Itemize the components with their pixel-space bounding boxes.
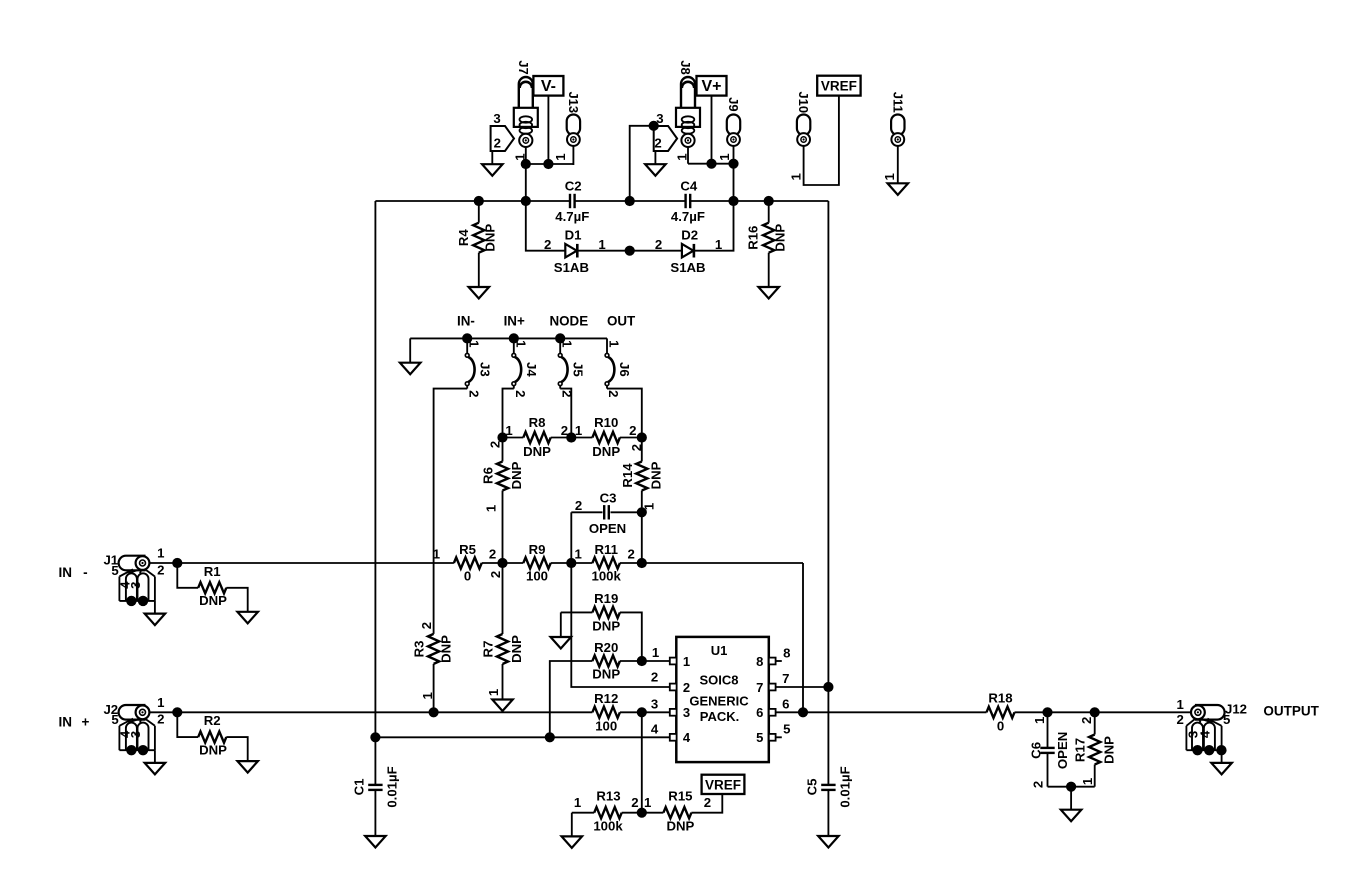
svg-text:DNP: DNP xyxy=(592,444,620,459)
svg-text:C2: C2 xyxy=(565,179,582,194)
svg-text:6: 6 xyxy=(756,705,763,720)
svg-text:100k: 100k xyxy=(593,819,623,834)
svg-text:8: 8 xyxy=(783,646,790,661)
resistor R8 xyxy=(523,432,550,443)
svg-text:2: 2 xyxy=(157,712,164,727)
svg-text:R17: R17 xyxy=(1073,738,1088,762)
svg-text:R13: R13 xyxy=(596,788,620,803)
svg-text:C3: C3 xyxy=(600,491,617,506)
svg-text:1: 1 xyxy=(433,547,440,562)
ground R1 xyxy=(237,612,258,624)
resistor R19 xyxy=(561,611,593,613)
svg-text:S1AB: S1AB xyxy=(554,260,589,275)
node C6 R17 ground junction xyxy=(1066,782,1076,792)
ground R4 xyxy=(469,287,490,299)
svg-text:1: 1 xyxy=(483,505,498,512)
connector J12 xyxy=(1195,705,1225,720)
node guard IN- xyxy=(462,333,472,343)
node rail R4 xyxy=(474,196,484,206)
resistor R5 xyxy=(454,557,482,568)
wire IN- line xyxy=(149,562,454,564)
svg-text:1: 1 xyxy=(486,689,501,696)
wire V+ box stem xyxy=(711,96,713,164)
test point J11 xyxy=(891,115,904,136)
wire R8 R10 row xyxy=(503,437,524,439)
wire J4 pin2 to R8 xyxy=(503,389,514,438)
pin 8 stub U1 xyxy=(776,660,782,662)
ground C5 xyxy=(818,836,839,848)
node guard IN+ xyxy=(509,333,519,343)
node trim junction pin1 xyxy=(637,656,647,666)
svg-text:2: 2 xyxy=(629,444,644,451)
svg-text:100: 100 xyxy=(526,569,548,584)
svg-text:DNP: DNP xyxy=(523,444,551,459)
banana jack J7 xyxy=(519,77,533,108)
svg-text:1: 1 xyxy=(553,153,568,160)
wire power rail xyxy=(375,200,570,202)
svg-text:100: 100 xyxy=(595,719,617,734)
wire pin1 xyxy=(642,660,670,662)
svg-text:1: 1 xyxy=(157,546,164,561)
svg-text:R5: R5 xyxy=(459,542,476,557)
svg-text:R9: R9 xyxy=(529,542,546,557)
node R11 pin2 junction xyxy=(637,558,647,568)
svg-text:J3: J3 xyxy=(477,362,492,377)
node pin7 junction xyxy=(823,682,833,692)
wire right power vertical xyxy=(827,201,829,785)
svg-text:R1: R1 xyxy=(204,564,221,579)
svg-text:+: + xyxy=(81,715,89,730)
svg-text:3: 3 xyxy=(493,111,500,126)
svg-text:OUTPUT: OUTPUT xyxy=(1263,703,1319,718)
svg-text:J10: J10 xyxy=(796,91,811,113)
node rail center xyxy=(625,196,635,206)
svg-text:J4: J4 xyxy=(524,362,539,377)
svg-text:0.01µF: 0.01µF xyxy=(384,766,399,807)
node guard NODE xyxy=(555,333,565,343)
svg-text:S1AB: S1AB xyxy=(670,260,705,275)
svg-text:DNP: DNP xyxy=(439,635,454,663)
svg-text:2: 2 xyxy=(655,237,662,252)
svg-text:OUT: OUT xyxy=(607,314,636,329)
svg-text:2: 2 xyxy=(683,680,690,695)
net label box V+ xyxy=(697,76,727,96)
svg-text:1: 1 xyxy=(505,423,512,438)
svg-text:2: 2 xyxy=(628,547,635,562)
svg-text:1: 1 xyxy=(157,695,164,710)
node R8 pin2 R10 pin1 xyxy=(566,432,576,442)
svg-text:NODE: NODE xyxy=(549,314,588,329)
svg-text:0.01µF: 0.01µF xyxy=(837,766,852,807)
node J2 junction xyxy=(172,707,182,717)
wire J8 pin1 down xyxy=(687,147,689,164)
ground R2 xyxy=(237,761,258,773)
wire R11 feedback column xyxy=(641,512,643,563)
node R8 pin1 xyxy=(497,432,507,442)
svg-text:1: 1 xyxy=(560,340,575,347)
svg-text:2: 2 xyxy=(629,423,636,438)
node rail V+ column xyxy=(728,196,738,206)
svg-text:V+: V+ xyxy=(701,78,721,95)
diode D1 xyxy=(565,244,577,258)
svg-text:J5: J5 xyxy=(570,362,585,377)
svg-text:2: 2 xyxy=(1031,781,1046,788)
svg-text:R3: R3 xyxy=(411,641,426,658)
connector switch pentagon J7 pins 3-2 xyxy=(491,126,514,151)
wire C6 R17 bottom join xyxy=(1048,786,1095,788)
svg-text:IN: IN xyxy=(59,715,73,730)
resistor R20 xyxy=(550,661,593,737)
node R12 pin2 pin3 xyxy=(637,707,647,717)
svg-text:2: 2 xyxy=(631,795,638,810)
svg-text:D1: D1 xyxy=(565,228,582,243)
wire D1 to center xyxy=(578,250,630,252)
connector J2 xyxy=(119,705,146,720)
wire feedback to pin6 xyxy=(802,563,804,712)
node R17 junction xyxy=(1090,707,1100,717)
svg-text:DNP: DNP xyxy=(483,224,498,252)
node feedback on output xyxy=(798,707,808,717)
svg-text:DNP: DNP xyxy=(509,461,524,489)
node V- stem junction xyxy=(543,159,553,169)
resistor R6 xyxy=(502,438,504,462)
node C6 junction xyxy=(1042,707,1052,717)
svg-text:2: 2 xyxy=(654,136,661,151)
svg-text:5: 5 xyxy=(783,722,790,737)
resistor R4 xyxy=(478,201,480,223)
capacitor C3 xyxy=(611,511,642,513)
wire J8 pin3 to center column xyxy=(630,126,654,201)
svg-text:C5: C5 xyxy=(805,779,820,796)
svg-text:R18: R18 xyxy=(988,690,1012,705)
resistor R2 xyxy=(177,712,198,737)
resistor R7 xyxy=(502,563,504,634)
svg-text:2: 2 xyxy=(575,498,582,513)
resistor R16 xyxy=(768,201,770,223)
node pin4 left xyxy=(370,732,380,742)
svg-text:J11: J11 xyxy=(890,92,905,113)
jumper J3 xyxy=(466,338,468,353)
svg-text:VREF: VREF xyxy=(821,79,857,94)
wire pin7 to V+ column xyxy=(776,686,829,688)
resistor R18 xyxy=(987,707,1015,718)
svg-text:1: 1 xyxy=(683,654,690,669)
capacitor C5 xyxy=(821,784,835,786)
jumper J6 xyxy=(606,338,608,353)
svg-text:8: 8 xyxy=(756,654,763,669)
svg-text:2: 2 xyxy=(606,390,621,397)
svg-text:R12: R12 xyxy=(594,691,618,706)
svg-text:R2: R2 xyxy=(204,713,221,728)
svg-text:4.7µF: 4.7µF xyxy=(671,209,705,224)
svg-text:1: 1 xyxy=(882,173,897,180)
wire J13 down xyxy=(572,146,574,165)
resistor R13 xyxy=(594,807,622,818)
svg-text:C4: C4 xyxy=(680,179,698,194)
svg-text:DNP: DNP xyxy=(199,742,227,757)
svg-text:2: 2 xyxy=(488,571,503,578)
svg-text:1: 1 xyxy=(607,340,622,347)
svg-text:C6: C6 xyxy=(1028,742,1043,759)
svg-text:1: 1 xyxy=(575,547,582,562)
resistor R14 xyxy=(641,438,643,462)
ground R16 xyxy=(758,287,779,299)
svg-text:1: 1 xyxy=(675,153,690,160)
ground R19 xyxy=(551,637,572,649)
ground guard rail xyxy=(400,363,421,375)
diode D2 xyxy=(682,244,694,258)
svg-text:R7: R7 xyxy=(480,641,495,658)
svg-text:D2: D2 xyxy=(681,228,698,243)
svg-text:R10: R10 xyxy=(594,415,618,430)
wire J9 down to rail xyxy=(733,146,735,201)
svg-text:R8: R8 xyxy=(529,415,546,430)
svg-text:DNP: DNP xyxy=(592,619,620,634)
svg-text:2: 2 xyxy=(419,622,434,629)
node diode center xyxy=(625,246,635,256)
test point J9 xyxy=(727,115,740,136)
svg-text:2: 2 xyxy=(489,547,496,562)
svg-text:1: 1 xyxy=(715,237,722,252)
svg-text:DNP: DNP xyxy=(1101,736,1116,764)
svg-text:0: 0 xyxy=(464,569,471,584)
resistor R3 xyxy=(428,634,439,664)
svg-text:1: 1 xyxy=(513,340,528,347)
svg-text:SOIC8: SOIC8 xyxy=(699,673,738,688)
capacitor C1 xyxy=(374,737,376,785)
svg-text:3: 3 xyxy=(683,705,690,720)
svg-text:1: 1 xyxy=(574,795,581,810)
net label box V- xyxy=(533,76,563,96)
wire J5 pin2 to node xyxy=(560,389,571,438)
node rail R16 xyxy=(764,196,774,206)
svg-text:OPEN: OPEN xyxy=(1055,732,1070,769)
svg-text:2: 2 xyxy=(651,670,658,685)
resistor R9 xyxy=(523,557,550,568)
wire V+ node horizontal xyxy=(688,163,734,165)
wire pin6 output xyxy=(776,711,987,713)
wire J11 down xyxy=(897,146,899,184)
svg-text:1: 1 xyxy=(575,423,582,438)
svg-text:1: 1 xyxy=(420,692,435,699)
test point J13 xyxy=(567,115,580,136)
svg-text:4: 4 xyxy=(683,730,691,745)
svg-text:4: 4 xyxy=(1198,730,1213,738)
wire D2 to V+ column xyxy=(694,201,733,251)
svg-text:J7: J7 xyxy=(516,60,531,74)
svg-text:2: 2 xyxy=(494,136,501,151)
svg-text:2: 2 xyxy=(488,441,503,448)
wire R19 pin1 to ground xyxy=(560,612,562,637)
svg-text:-: - xyxy=(83,565,88,580)
svg-text:DNP: DNP xyxy=(773,224,788,252)
svg-text:100k: 100k xyxy=(592,569,622,584)
svg-text:U1: U1 xyxy=(711,643,728,658)
wire R12 node to R13 xyxy=(641,712,643,812)
svg-text:5: 5 xyxy=(111,563,118,578)
svg-text:R20: R20 xyxy=(594,640,618,655)
svg-text:6: 6 xyxy=(782,696,789,711)
jumper J4 xyxy=(513,338,515,353)
svg-text:1: 1 xyxy=(644,795,651,810)
wire R13 row xyxy=(572,812,594,814)
svg-text:4: 4 xyxy=(651,722,659,737)
svg-text:2: 2 xyxy=(157,562,164,577)
node R20 on pin4 line xyxy=(545,732,555,742)
svg-text:R6: R6 xyxy=(480,467,495,484)
svg-text:3: 3 xyxy=(651,696,658,711)
wire V- node horizontal xyxy=(526,163,574,165)
wire jumper guard rail xyxy=(410,337,607,339)
wire J6 top corner xyxy=(606,337,608,339)
svg-text:J13: J13 xyxy=(566,91,581,113)
svg-text:2: 2 xyxy=(1079,717,1094,724)
svg-text:DNP: DNP xyxy=(509,635,524,663)
resistor R15 xyxy=(663,807,691,818)
wire V- to D1 xyxy=(526,201,566,251)
connector J1 xyxy=(119,556,146,571)
wire left power vertical xyxy=(374,201,376,737)
wire J8 pentagon to ground xyxy=(654,151,656,165)
svg-text:7: 7 xyxy=(756,680,763,695)
node V- jack junction xyxy=(521,159,531,169)
wire J7 pin1 down xyxy=(525,147,527,201)
resistor R11 xyxy=(592,557,620,568)
wire IN+ line xyxy=(149,711,593,713)
svg-text:J6: J6 xyxy=(617,362,632,377)
node V+ stem junction xyxy=(706,159,716,169)
svg-text:2: 2 xyxy=(544,237,551,252)
svg-text:IN-: IN- xyxy=(457,314,475,329)
svg-text:R15: R15 xyxy=(668,788,692,803)
ground output filter xyxy=(1061,810,1082,822)
svg-text:IN: IN xyxy=(59,565,73,580)
wire J3 pin2 to R3 column xyxy=(434,389,468,634)
svg-text:7: 7 xyxy=(782,671,789,686)
svg-text:2: 2 xyxy=(1177,712,1184,727)
node rail V- column xyxy=(521,196,531,206)
resistor R17 xyxy=(1094,712,1096,734)
wire pin4 line xyxy=(375,736,670,738)
op-amp U1 SOIC8 GENERIC PACK xyxy=(676,637,769,762)
svg-text:1: 1 xyxy=(1032,717,1047,724)
capacitor C6 xyxy=(1047,712,1049,748)
wire ground stem output filter xyxy=(1070,787,1072,810)
jumper J5 xyxy=(559,338,561,353)
svg-text:R14: R14 xyxy=(620,463,635,488)
ground R13 xyxy=(562,836,583,848)
svg-text:J8: J8 xyxy=(678,60,693,74)
resistor R12 xyxy=(592,707,620,718)
resistor R1 xyxy=(177,563,198,588)
node J1 junction xyxy=(172,558,182,568)
banana jack J8 xyxy=(681,77,695,108)
svg-text:VREF: VREF xyxy=(705,777,741,792)
svg-text:R19: R19 xyxy=(594,591,618,606)
pin 5 stub U1 xyxy=(776,736,782,738)
svg-text:R16: R16 xyxy=(746,226,761,250)
wire J6 pin2 to node xyxy=(607,389,642,438)
svg-text:C1: C1 xyxy=(352,779,367,796)
net label box VREF top xyxy=(817,76,860,96)
svg-text:1: 1 xyxy=(1177,697,1184,712)
wire J7 pentagon to ground xyxy=(491,151,493,165)
svg-text:1: 1 xyxy=(717,153,732,160)
svg-text:DNP: DNP xyxy=(649,461,664,489)
wire pin2 xyxy=(571,563,670,687)
node R13 R15 junction xyxy=(637,808,647,818)
node J8 pin3 junction xyxy=(649,121,659,131)
ground C1 xyxy=(365,836,386,848)
test point J10 xyxy=(797,115,810,136)
svg-text:2: 2 xyxy=(513,390,528,397)
svg-text:2: 2 xyxy=(704,795,711,810)
capacitor C2 xyxy=(569,194,571,208)
net label box VREF bottom xyxy=(702,775,745,794)
node R9 pin2 junction xyxy=(566,558,576,568)
svg-text:IN+: IN+ xyxy=(504,314,525,329)
node J9 junction xyxy=(728,159,738,169)
svg-text:1: 1 xyxy=(788,173,803,180)
svg-text:R11: R11 xyxy=(594,542,617,557)
wire C3 pin2 down xyxy=(570,512,572,563)
ground J11 xyxy=(888,183,909,195)
svg-text:5: 5 xyxy=(756,730,763,745)
svg-text:5: 5 xyxy=(111,712,118,727)
svg-text:2: 2 xyxy=(466,390,481,397)
wire J10 to VREF box xyxy=(804,96,839,185)
wire R13 pin1 to ground xyxy=(571,813,573,837)
svg-text:5: 5 xyxy=(1223,712,1230,727)
svg-text:0: 0 xyxy=(997,719,1004,734)
wire V- box stem xyxy=(547,96,549,164)
resistor R10 xyxy=(592,432,620,443)
svg-text:DNP: DNP xyxy=(666,819,694,834)
svg-text:3: 3 xyxy=(128,582,143,589)
svg-text:R4: R4 xyxy=(456,229,471,247)
svg-text:1: 1 xyxy=(1080,778,1095,785)
svg-text:1: 1 xyxy=(598,237,605,252)
connector switch pentagon J8 pins 3-2 xyxy=(654,126,677,151)
ground J7 xyxy=(482,164,503,176)
svg-text:4.7µF: 4.7µF xyxy=(555,209,589,224)
ground J8 xyxy=(645,164,666,176)
node C3 pin1 R14 xyxy=(637,507,647,517)
wire R15 to VREF xyxy=(691,794,722,813)
svg-text:PACK.: PACK. xyxy=(700,709,739,724)
wire center to D2 xyxy=(630,250,682,252)
wire guard rail to ground xyxy=(409,338,411,363)
svg-text:V-: V- xyxy=(541,78,556,95)
svg-text:J9: J9 xyxy=(726,97,741,111)
svg-text:DNP: DNP xyxy=(199,593,227,608)
svg-text:1: 1 xyxy=(467,340,482,347)
svg-text:GENERIC: GENERIC xyxy=(689,694,749,709)
svg-text:DNP: DNP xyxy=(592,667,620,682)
svg-text:3: 3 xyxy=(128,731,143,738)
node R5 pin2 junction xyxy=(497,558,507,568)
node R3 pin1 on IN+ line xyxy=(429,707,439,717)
capacitor C4 xyxy=(684,194,686,208)
svg-text:OPEN: OPEN xyxy=(589,521,626,536)
node R10 pin2 xyxy=(637,432,647,442)
svg-text:1: 1 xyxy=(652,645,659,660)
ground R7 xyxy=(492,700,513,712)
